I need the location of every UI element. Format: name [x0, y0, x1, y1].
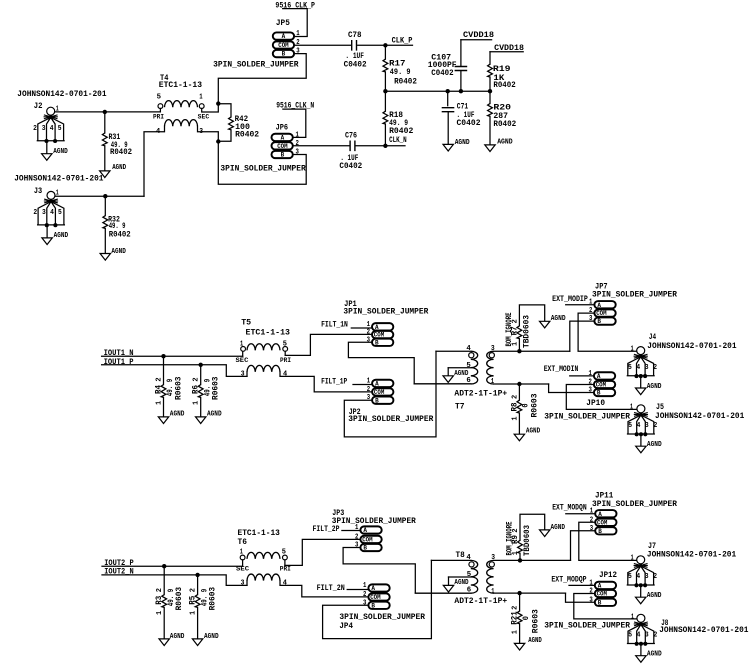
svg-text:3: 3: [367, 336, 371, 344]
svg-text:AGND: AGND: [647, 651, 662, 659]
wire JP10 COM to J5 pin 1: [566, 385, 637, 410]
svg-text:2: 2: [156, 588, 164, 593]
connector J8 shield junction dots: [635, 642, 639, 646]
solder jumper JP7 pills: [594, 301, 615, 308]
ground AGND of R8: [514, 434, 524, 441]
svg-text:5: 5: [157, 94, 162, 102]
resistor R31: [104, 112, 106, 133]
transformer T5 primary coil: [247, 365, 280, 372]
wire C76 to CLK_N node: [356, 145, 385, 147]
svg-text:ETC1-1-13: ETC1-1-13: [246, 328, 291, 338]
svg-text:AGND: AGND: [551, 315, 566, 323]
svg-text:R0402: R0402: [493, 80, 515, 90]
wire T8 pin 1 lead: [494, 592, 566, 594]
svg-text:B: B: [363, 545, 367, 552]
svg-text:2: 2: [190, 588, 198, 593]
svg-text:AGND: AGND: [54, 232, 69, 240]
ground AGND of R32: [100, 254, 110, 261]
net stub EXT_MODIP to JP7 pin 1: [566, 304, 595, 306]
capacitor C107: [460, 40, 462, 67]
T7 polarity circle right: [489, 353, 494, 358]
svg-text:T7: T7: [455, 402, 465, 412]
ground AGND of R3: [159, 639, 169, 646]
wire R6 to ground: [200, 397, 202, 417]
wire R7 to ground arm: [519, 305, 544, 326]
svg-text:2: 2: [363, 591, 367, 599]
wire T5 pin 5 to JP1 COM: [285, 334, 372, 355]
resistor R17 body: [383, 59, 388, 72]
svg-text:A: A: [375, 324, 379, 331]
svg-text:3: 3: [241, 579, 245, 587]
svg-text:3PIN_SOLDER_JUMPER: 3PIN_SOLDER_JUMPER: [544, 620, 631, 630]
svg-text:PRI: PRI: [280, 566, 291, 573]
net stub CLK_N: [385, 145, 405, 147]
svg-text:1: 1: [155, 400, 163, 405]
resistor R9 body: [518, 540, 523, 553]
svg-text:2: 2: [512, 528, 520, 533]
svg-text:COM: COM: [374, 332, 385, 339]
ground AGND of R4: [158, 417, 168, 424]
svg-text:49. 9: 49. 9: [390, 67, 411, 77]
svg-text:R3: R3: [154, 596, 164, 605]
svg-text:5: 5: [628, 632, 632, 640]
svg-text:3PIN_SOLDER_JUMPER: 3PIN_SOLDER_JUMPER: [592, 499, 678, 509]
svg-text:R21: R21: [510, 611, 520, 625]
connector J3 shield junction dots: [45, 223, 49, 227]
wire R20 to ground: [489, 116, 491, 145]
svg-text:J3: J3: [34, 186, 42, 196]
svg-text:3: 3: [199, 128, 203, 136]
svg-text:1: 1: [589, 370, 593, 378]
svg-text:FILT_1N: FILT_1N: [321, 320, 348, 330]
wire R5 to ground: [197, 607, 199, 639]
connector J4 ground stem: [640, 376, 642, 388]
wire IOUT2_P to T6 pin 1: [102, 565, 243, 567]
wire riser to JP11 B: [571, 531, 596, 561]
svg-text:R7: R7: [510, 326, 520, 335]
svg-text:3: 3: [645, 422, 649, 430]
solder jumper JP1 pills: [372, 323, 393, 330]
svg-text:R6: R6: [191, 385, 201, 394]
svg-text:ADT2-1T-1P+: ADT2-1T-1P+: [454, 389, 507, 399]
wire T5 pin 3 stub: [246, 372, 248, 377]
svg-text:0: 0: [521, 616, 531, 620]
svg-text:2: 2: [512, 605, 520, 610]
svg-text:EXT_MODQN: EXT_MODQN: [552, 502, 587, 512]
svg-text:2: 2: [355, 533, 359, 541]
transformer T7 primary winding: [471, 351, 478, 384]
svg-text:3: 3: [367, 394, 371, 402]
resistor R4 body: [161, 385, 166, 398]
svg-text:CLK_P: CLK_P: [392, 35, 413, 45]
wire T5 pin 1 stub: [242, 351, 244, 356]
svg-text:AGND: AGND: [528, 637, 542, 645]
wire R17 to bus node: [384, 72, 386, 91]
svg-text:FILT_1P: FILT_1P: [321, 376, 347, 386]
svg-text:PRI: PRI: [280, 357, 291, 364]
svg-text:3PIN_SOLDER_JUMPER: 3PIN_SOLDER_JUMPER: [332, 516, 417, 526]
connector J5 shield junction dots: [635, 432, 639, 436]
svg-text:2: 2: [589, 379, 593, 387]
ground AGND of R6: [196, 417, 206, 424]
junction T4 pin 1 node: [216, 101, 220, 105]
svg-text:R5: R5: [188, 596, 198, 605]
connector J2 ground stem: [46, 141, 48, 154]
svg-text:4: 4: [636, 573, 640, 581]
wire C78 to node CLK_P: [358, 44, 386, 46]
svg-text:3PIN_SOLDER_JUMPER: 3PIN_SOLDER_JUMPER: [343, 306, 429, 316]
svg-text:R0402: R0402: [109, 229, 131, 239]
svg-text:1: 1: [491, 588, 495, 596]
wire 9516_CLK_N to JP6 pin 1: [283, 109, 306, 137]
ground AGND of J8: [636, 656, 646, 663]
ground AGND of R20: [485, 145, 495, 152]
resistor R21: [519, 593, 521, 611]
svg-text:EXT_MODIP: EXT_MODIP: [552, 294, 588, 304]
wire C107 to bus: [460, 71, 462, 92]
junction R31 tap: [103, 110, 107, 114]
wire T5 pin 4 to JP2 COM: [280, 372, 372, 392]
svg-text:C78: C78: [348, 30, 362, 40]
svg-text:1: 1: [240, 341, 244, 349]
wire T8 pin 6 lead: [415, 592, 471, 594]
svg-text:A: A: [281, 135, 285, 142]
net stub CVDD18 over R19: [490, 51, 523, 53]
net stub EXT_MODQP to JP12 pin 1: [569, 584, 595, 586]
wire R31 to ground: [104, 146, 106, 171]
wire T6 pin 1 stub: [242, 560, 244, 566]
junction R21 tap: [517, 591, 521, 595]
ground AGND of J3: [42, 238, 52, 245]
svg-text:3: 3: [42, 125, 46, 133]
capacitor C78: [352, 41, 357, 50]
wire T6 pin 4 to JP4 COM: [280, 581, 368, 597]
capacitor C71 plates: [442, 108, 453, 112]
ground AGND of R9: [540, 530, 550, 537]
resistor R18 body: [383, 111, 388, 124]
svg-text:R0603: R0603: [530, 394, 540, 418]
svg-text:3: 3: [645, 364, 649, 372]
connector J4 body: [627, 357, 654, 376]
svg-text:3: 3: [355, 542, 359, 550]
svg-text:R8: R8: [510, 403, 520, 412]
wire T7 pin 5 center tap: [448, 367, 471, 369]
svg-text:SEC: SEC: [236, 566, 250, 573]
svg-text:JOHNSON142-0701-201: JOHNSON142-0701-201: [655, 411, 744, 421]
svg-text:R0402: R0402: [394, 77, 417, 87]
T7 polarity circle left: [469, 353, 474, 358]
net stub FILT_1P to JP2 pin 1: [353, 384, 372, 386]
svg-text:4: 4: [466, 554, 471, 562]
transformer T5 secondary coil: [247, 344, 280, 351]
svg-text:AGND: AGND: [53, 148, 68, 156]
resistor R19: [489, 52, 491, 64]
wire IOUT2_N to T6 pin 3: [102, 575, 247, 586]
svg-text:CLK_N: CLK_N: [389, 135, 407, 145]
svg-text:COM: COM: [597, 519, 608, 526]
svg-text:R0402: R0402: [110, 147, 132, 157]
svg-text:A: A: [598, 511, 602, 518]
transformer T4 primary coil: [165, 101, 198, 108]
svg-text:SEC: SEC: [198, 114, 210, 121]
solder jumper JP4 pills: [368, 584, 389, 591]
junction R7 tap: [517, 349, 521, 353]
svg-text:C76: C76: [345, 130, 357, 140]
resistor R18: [384, 91, 386, 111]
connector J2 pin 1 circle: [47, 107, 55, 115]
wire T5 pin 5 stub: [284, 351, 286, 355]
solder jumper JP12 pills: [595, 582, 616, 589]
svg-text:R9: R9: [510, 535, 520, 544]
svg-text:AGND: AGND: [647, 441, 662, 449]
svg-text:1: 1: [590, 508, 594, 516]
junction CLK_N node: [383, 144, 387, 148]
net stub FILT_1N to JP1 pin 1: [351, 327, 372, 329]
capacitor C107 plates: [455, 67, 466, 71]
svg-text:3: 3: [241, 370, 245, 378]
transformer T6 pin 1 circle: [240, 555, 245, 560]
svg-text:ETC1-1-13: ETC1-1-13: [159, 80, 202, 90]
wire R9 to ground arm: [520, 514, 545, 540]
wire JP2 B to T7 pin 4: [344, 351, 436, 437]
resistor R19 body: [488, 64, 493, 77]
svg-text:IOUT1_P: IOUT1_P: [104, 357, 134, 367]
svg-text:5: 5: [58, 125, 62, 133]
connector J3 pin 1 circle: [47, 191, 55, 199]
svg-text:B: B: [282, 51, 286, 58]
resistor R31 body: [102, 133, 107, 146]
svg-text:1: 1: [296, 131, 300, 139]
wire JP6 COM to C76: [294, 145, 349, 147]
svg-text:JOHNSON142-0701-201: JOHNSON142-0701-201: [14, 173, 103, 183]
junction R8 tap: [517, 382, 521, 386]
svg-text:AGND: AGND: [455, 139, 470, 147]
connector J5 body: [628, 415, 655, 434]
wire JP3 B to T8 pin 6: [343, 548, 471, 594]
resistor R20: [489, 91, 491, 103]
junction CLK_P node: [383, 43, 387, 47]
wire T6 pin 3 stub: [246, 581, 248, 586]
solder jumper JP10 pills: [594, 372, 615, 379]
svg-text:J2: J2: [34, 101, 43, 111]
ground AGND of J7: [636, 597, 646, 604]
connector J7 shield junction dots: [634, 583, 638, 587]
svg-text:4: 4: [283, 579, 288, 587]
svg-text:3: 3: [590, 525, 594, 533]
svg-text:3: 3: [42, 209, 46, 217]
svg-text:4: 4: [466, 345, 471, 353]
svg-text:2: 2: [296, 140, 300, 148]
ground AGND of T8 tap: [443, 585, 453, 592]
resistor R21 body: [517, 611, 522, 624]
wire JP5 B to T4 pin 1 node: [218, 54, 306, 104]
svg-text:R0603: R0603: [531, 609, 541, 633]
junction T4 pin 3 node: [216, 139, 220, 143]
transformer T8 secondary winding: [487, 560, 494, 593]
wire C71 to ground: [447, 112, 449, 144]
svg-text:2: 2: [367, 386, 371, 394]
resistor R8 body: [517, 400, 522, 413]
svg-text:B: B: [281, 152, 285, 159]
transformer T6 secondary coil: [247, 552, 280, 559]
wire T6 pin 5 stub: [284, 560, 286, 566]
svg-text:COM: COM: [370, 594, 381, 601]
svg-text:3PIN_SOLDER_JUMPER: 3PIN_SOLDER_JUMPER: [213, 59, 299, 69]
svg-text:3: 3: [589, 315, 593, 323]
wire IOUT1_N to T5 pin 1: [102, 355, 243, 357]
transformer T5 pin 5 circle: [283, 347, 288, 352]
junction R19/R20 node: [488, 89, 492, 93]
svg-text:1: 1: [512, 630, 520, 635]
resistor R42 body: [229, 117, 234, 130]
svg-text:AGND: AGND: [204, 633, 219, 641]
svg-text:3PIN_SOLDER_JUMPER: 3PIN_SOLDER_JUMPER: [220, 163, 306, 173]
connector J2 body: [37, 117, 64, 140]
svg-text:1: 1: [240, 548, 244, 556]
svg-text:AGND: AGND: [112, 164, 126, 172]
svg-text:4: 4: [50, 209, 54, 217]
wire JP6 B to T4 pin 3 node: [218, 142, 306, 185]
wire JP12 COM to J8 pin 1: [574, 594, 637, 619]
svg-text:TBD0603: TBD0603: [522, 525, 532, 556]
svg-text:AGND: AGND: [207, 411, 222, 419]
junction R3 tap: [162, 564, 166, 568]
svg-text:3PIN_SOLDER_JUMPER: 3PIN_SOLDER_JUMPER: [348, 414, 434, 424]
transformer T6 pin 5 circle: [283, 555, 288, 560]
svg-text:3PIN_SOLDER_JUMPER: 3PIN_SOLDER_JUMPER: [339, 612, 425, 622]
wire R3 to ground: [163, 607, 165, 639]
ground AGND of R7: [540, 321, 550, 328]
wire T7 pin 6 lead: [414, 383, 471, 385]
svg-text:JP4: JP4: [339, 621, 353, 631]
svg-text:AGND: AGND: [551, 524, 566, 532]
svg-text:5: 5: [628, 573, 632, 581]
resistor R5 body: [195, 595, 200, 608]
net stub EXT_MODQN to JP11 pin 1: [566, 513, 595, 515]
resistor R8: [518, 384, 520, 400]
svg-text:COM: COM: [596, 382, 607, 389]
svg-text:2: 2: [33, 125, 37, 133]
svg-text:4: 4: [50, 125, 54, 133]
svg-text:1: 1: [631, 613, 634, 621]
svg-text:A: A: [363, 527, 367, 534]
ground AGND of J5: [636, 446, 646, 453]
solder jumper JP2 pills: [372, 380, 393, 387]
svg-text:AGND: AGND: [526, 428, 540, 436]
svg-text:JOHNSON142-0701-201: JOHNSON142-0701-201: [17, 89, 106, 99]
svg-text:1: 1: [589, 299, 593, 307]
svg-text:2: 2: [155, 377, 163, 382]
svg-text:5: 5: [628, 364, 632, 372]
svg-text:2: 2: [33, 209, 37, 217]
wire JP5 COM to C78: [294, 44, 350, 46]
svg-text:COM: COM: [374, 389, 385, 396]
connector J8 pin 1 circle: [637, 614, 645, 622]
net stub FILT_2N to JP4 pin 1: [347, 589, 368, 591]
svg-text:B: B: [598, 599, 602, 606]
resistor R6 body: [198, 385, 203, 398]
wire R8 to ground: [518, 413, 520, 434]
svg-text:C0402: C0402: [339, 161, 362, 171]
wire IOUT1_P to T5 pin 3: [102, 365, 247, 377]
svg-text:3: 3: [645, 573, 649, 581]
svg-text:1: 1: [296, 30, 300, 38]
wire 9516_CLK_P to JP5 pin 1: [283, 9, 308, 37]
wire R32 to ground: [104, 228, 106, 253]
resistor R7: [518, 339, 520, 352]
svg-text:COM: COM: [277, 143, 288, 150]
svg-text:4: 4: [156, 128, 161, 136]
svg-text:JOHNSON142-0701-201: JOHNSON142-0701-201: [647, 549, 736, 559]
net stub FILT_2P to JP3 pin 1: [342, 530, 361, 532]
wire JP1 B to T7 pin 6: [348, 342, 470, 384]
svg-text:5: 5: [282, 548, 287, 556]
wire T7 pin 3 to JP7 B riser: [494, 350, 570, 352]
svg-text:C0402: C0402: [457, 118, 481, 128]
junction R32 tap: [103, 194, 107, 198]
wire bias bus: [385, 90, 490, 92]
wire step to JP10 B: [549, 384, 594, 393]
wire T8 tap to ground: [448, 577, 450, 585]
transformer T8 primary winding: [471, 560, 478, 593]
svg-text:5: 5: [283, 341, 288, 349]
svg-text:1: 1: [631, 554, 634, 562]
wire JP11 COM to J7 pin 1: [579, 522, 637, 560]
svg-text:A: A: [371, 585, 375, 592]
svg-text:1: 1: [363, 582, 367, 590]
wire T8 pin 5 center tap: [449, 576, 471, 578]
connector J4 pin 1 circle: [637, 347, 645, 355]
solder jumper JP6 pills: [272, 134, 293, 141]
svg-text:TBD0603: TBD0603: [522, 315, 532, 348]
connector J3 body: [38, 202, 65, 225]
wire T8 pin 3 to JP11 B riser: [494, 559, 571, 561]
svg-text:EXT_MODIN: EXT_MODIN: [544, 364, 579, 374]
wire T8 pin 4 lead: [431, 559, 470, 561]
T8 polarity circle right: [489, 562, 494, 567]
svg-text:5: 5: [466, 362, 471, 370]
svg-text:4: 4: [637, 632, 641, 640]
svg-text:COM: COM: [596, 310, 607, 317]
svg-text:2: 2: [654, 422, 658, 430]
svg-text:3PIN_SOLDER_JUMPER: 3PIN_SOLDER_JUMPER: [544, 412, 630, 422]
svg-text:2: 2: [193, 377, 201, 382]
connector J4 shield junction dots: [634, 374, 638, 378]
svg-text:COM: COM: [362, 537, 373, 544]
wire J3 pin 1 to T4 pin 4: [55, 195, 144, 197]
wire JP4 B to T8 pin 4: [323, 560, 432, 638]
svg-text:B: B: [598, 528, 602, 535]
resistor R32: [104, 196, 106, 215]
svg-text:COM: COM: [278, 42, 289, 49]
svg-text:T5: T5: [241, 318, 251, 328]
wire T7 pin 4 lead: [436, 350, 471, 352]
svg-text:A: A: [375, 381, 379, 388]
wire T7 pin 1 lead: [494, 383, 549, 385]
junction R17/R18 node: [383, 89, 387, 93]
connector J2 shield junction dots: [44, 139, 48, 143]
connector J8 ground stem: [640, 644, 642, 656]
transformer T4 pin 1 circle: [199, 104, 204, 109]
svg-text:T6: T6: [238, 537, 248, 547]
capacitor C76: [350, 141, 355, 150]
resistor R3 body: [162, 595, 167, 608]
connector J3 ground stem: [46, 225, 48, 238]
resistor R7 body: [517, 326, 522, 339]
ground AGND of C71: [443, 144, 453, 151]
junction R4 tap: [161, 354, 165, 358]
svg-text:A: A: [282, 33, 286, 40]
